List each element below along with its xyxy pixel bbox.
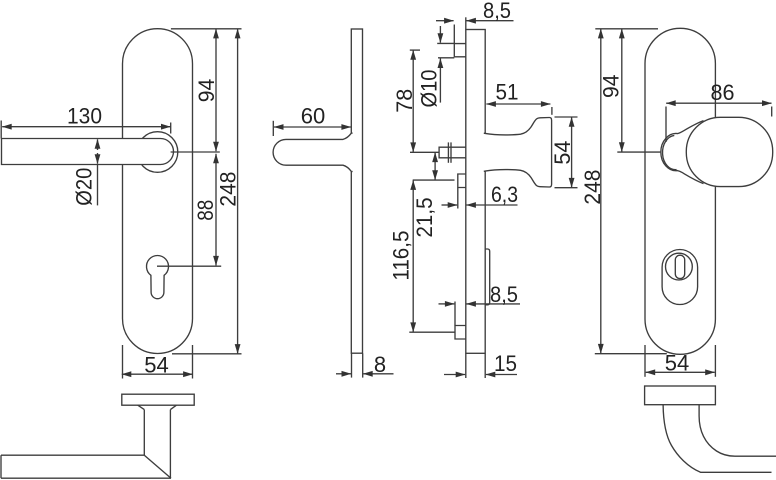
top extension line bbox=[171, 28, 242, 30]
bend outer contour bbox=[663, 405, 771, 473]
svg-text:130: 130 bbox=[67, 104, 102, 129]
dim 54 extension line right bbox=[192, 345, 194, 379]
svg-text:78: 78 bbox=[392, 89, 417, 113]
tab bottom bbox=[455, 326, 466, 340]
stem left line bbox=[143, 410, 145, 456]
svg-text:6,3: 6,3 bbox=[491, 182, 518, 207]
svg-text:60: 60 bbox=[301, 104, 326, 129]
svg-text:21,5: 21,5 bbox=[412, 198, 437, 238]
dim 8 extension line right bbox=[362, 353, 364, 377]
dim O10 arrow down bbox=[439, 26, 441, 43]
pin centerline extension bbox=[410, 151, 439, 153]
dim 15 extension line left bbox=[465, 354, 467, 378]
dim 54 line bbox=[122, 373, 193, 375]
dim 54 v4 extension line left bbox=[644, 345, 646, 377]
dim 54 right bottom extension bbox=[555, 187, 578, 189]
svg-text:8,5: 8,5 bbox=[483, 0, 511, 23]
dim 8,5 top arrow left bbox=[436, 20, 454, 22]
dim 94 line bbox=[621, 29, 623, 152]
dim 21,5 line bbox=[434, 153, 436, 180]
dim O20 leader line bbox=[97, 164, 99, 205]
dim 54 right top extension bbox=[555, 116, 578, 118]
stem right line bbox=[169, 410, 171, 479]
dim 15 arrow left bbox=[444, 374, 465, 376]
bottom extension line bbox=[595, 353, 667, 355]
rose disc side view bbox=[645, 386, 716, 405]
backplate outline bbox=[123, 29, 193, 354]
dim 86 extension line right bbox=[771, 107, 773, 117]
dim 54 extension line left bbox=[122, 345, 124, 379]
svg-text:54: 54 bbox=[550, 141, 575, 165]
dim 6,3 arrow right bbox=[466, 204, 517, 206]
thin plate side profile bbox=[351, 29, 362, 353]
svg-text:94: 94 bbox=[598, 74, 623, 98]
svg-text:248: 248 bbox=[580, 170, 605, 205]
dim 8,5 bottom arrow left bbox=[439, 303, 455, 305]
fixing screw tab top bbox=[454, 44, 466, 57]
tab bottom centerline extension bbox=[409, 331, 455, 333]
svg-text:51: 51 bbox=[496, 80, 519, 105]
spindle collar line 1 bbox=[447, 142, 449, 162]
dim 54 right line bbox=[571, 117, 573, 187]
dim 130 line bbox=[2, 126, 170, 128]
svg-text:94: 94 bbox=[194, 79, 219, 103]
oval rose side strip bbox=[485, 249, 490, 305]
svg-text:86: 86 bbox=[711, 80, 735, 105]
dim 88 line bbox=[215, 154, 217, 266]
dim 51 line bbox=[486, 103, 550, 105]
knob body front bbox=[686, 117, 772, 186]
dim 94 line bbox=[215, 29, 217, 151]
grip top edge bbox=[1, 454, 144, 456]
keyway slot bbox=[675, 255, 684, 278]
dim 8,5 top extension line bbox=[453, 25, 455, 44]
grip bottom edge bbox=[1, 477, 171, 479]
svg-text:Ø10: Ø10 bbox=[417, 70, 442, 108]
dim 130 extension line left bbox=[0, 121, 2, 139]
rose centerline extension bbox=[171, 151, 220, 153]
spindle pin bbox=[439, 147, 466, 158]
dim O20 arrow down + leader bbox=[97, 153, 99, 164]
svg-text:8: 8 bbox=[374, 352, 386, 377]
dim 86 extension line left bbox=[665, 107, 667, 143]
lever side profile bbox=[273, 133, 353, 172]
svg-text:54: 54 bbox=[665, 351, 690, 376]
top extension line bbox=[595, 28, 658, 30]
dim 15 extension line right bbox=[484, 354, 486, 378]
dim 130 extension line right bbox=[170, 123, 172, 134]
security rose oval bbox=[662, 250, 698, 305]
bottom extension line bbox=[172, 353, 242, 355]
dim 8,5 bottom extension line bbox=[454, 302, 456, 326]
dim 15 arrow right bbox=[486, 374, 517, 376]
grip end diagonal bbox=[144, 455, 171, 478]
dim 51 extension line right bbox=[551, 107, 553, 115]
dim 54 v4 line bbox=[646, 371, 715, 373]
dim 8,5 bottom arrow right bbox=[466, 303, 520, 305]
knob centerline extension bbox=[617, 151, 660, 153]
dim O10 tab bottom extension bbox=[438, 57, 454, 59]
cylinder circle bbox=[666, 253, 693, 280]
dim 78 top extension bbox=[410, 49, 420, 51]
svg-text:15: 15 bbox=[494, 351, 517, 376]
rose circle bbox=[137, 132, 178, 173]
plate side profile bbox=[466, 30, 485, 354]
knob neck outer contour bbox=[661, 121, 704, 184]
tab middle bbox=[458, 174, 466, 188]
dim 60 line bbox=[274, 126, 351, 128]
dim O10 tab top extension bbox=[437, 42, 454, 44]
svg-text:8,5: 8,5 bbox=[490, 282, 518, 307]
knob neck inner arc bbox=[663, 135, 677, 169]
dim O20 arrow up bbox=[97, 139, 99, 150]
dim 8 arrow right bbox=[363, 373, 393, 375]
tab middle centerline extension bbox=[413, 179, 455, 181]
spindle collar line 2 bbox=[450, 142, 452, 162]
lever grip bar bbox=[2, 139, 174, 165]
dim 8,5 top arrow right bbox=[466, 20, 513, 22]
dim 8 extension line left bbox=[351, 353, 353, 377]
bend inner contour bbox=[699, 405, 776, 457]
svg-text:54: 54 bbox=[144, 353, 169, 378]
dim O10 arrow up + leader bbox=[439, 59, 441, 103]
dim 116,5 line bbox=[412, 180, 414, 332]
svg-text:116,5: 116,5 bbox=[388, 231, 413, 281]
dim 248 line bbox=[600, 29, 602, 354]
dim 78 line bbox=[412, 50, 414, 152]
dim 8,5 top: plate edge extension up bbox=[465, 17, 467, 29]
svg-text:248: 248 bbox=[216, 172, 241, 207]
svg-text:Ø20: Ø20 bbox=[72, 168, 97, 206]
neck right slant bbox=[170, 405, 176, 409]
dim 86 line bbox=[666, 102, 771, 104]
dim 6,3 arrow left bbox=[442, 204, 458, 206]
dim 8 arrow left bbox=[336, 373, 351, 375]
backplate outline bbox=[645, 28, 715, 354]
grip left end bbox=[0, 455, 2, 478]
neck left slant bbox=[138, 405, 145, 409]
cylinder centerline extension bbox=[157, 265, 221, 267]
dim 54 v4 extension line right bbox=[714, 345, 716, 377]
euro profile cylinder hole bbox=[147, 256, 169, 299]
svg-text:88: 88 bbox=[193, 200, 218, 221]
dim 248 line bbox=[237, 29, 239, 354]
knob side profile bbox=[484, 117, 552, 187]
rose disc top view bbox=[122, 394, 194, 405]
dim 6,3 extension line bbox=[457, 188, 459, 209]
dim 60 extension line bbox=[272, 121, 274, 136]
